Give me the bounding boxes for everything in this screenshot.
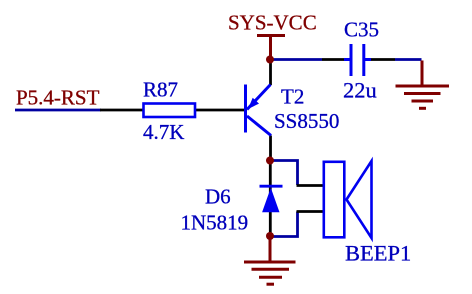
svg-text:SS8550: SS8550 bbox=[274, 109, 339, 133]
svg-text:D6: D6 bbox=[205, 185, 231, 209]
svg-text:C35: C35 bbox=[344, 17, 379, 41]
svg-text:1N5819: 1N5819 bbox=[181, 211, 249, 235]
svg-text:T2: T2 bbox=[281, 85, 304, 109]
svg-text:SYS-VCC: SYS-VCC bbox=[228, 11, 317, 35]
svg-text:22u: 22u bbox=[343, 78, 377, 103]
svg-text:R87: R87 bbox=[143, 78, 178, 102]
svg-text:P5.4-RST: P5.4-RST bbox=[16, 86, 100, 110]
svg-text:4.7K: 4.7K bbox=[143, 120, 184, 144]
svg-text:BEEP1: BEEP1 bbox=[345, 241, 411, 266]
